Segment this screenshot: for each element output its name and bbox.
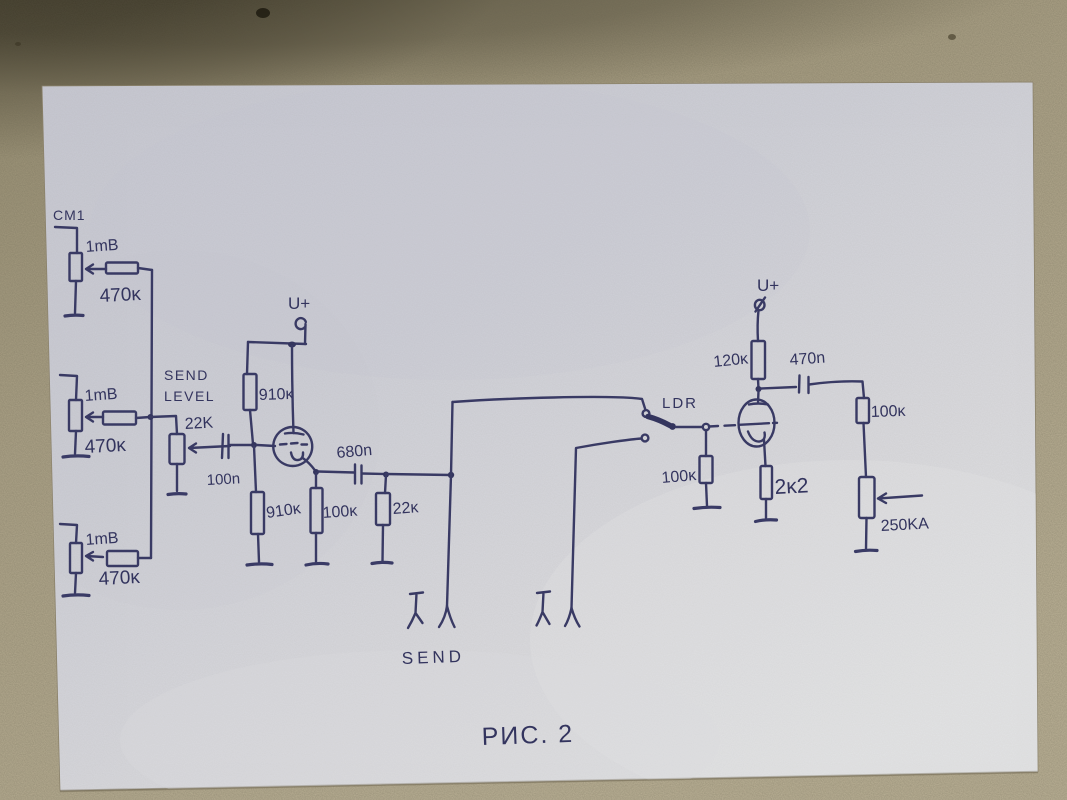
wire C3 to R11: [809, 381, 864, 398]
jack J1 sleeve: [408, 593, 423, 629]
junction U+ plate node: [288, 342, 296, 348]
V1 grid: [280, 443, 307, 445]
svg-text:1mB: 1mB: [85, 530, 119, 549]
terminal LDR top: [643, 410, 650, 417]
potentiometer P3 1mB: [70, 543, 103, 573]
wire grid node to R6: [254, 446, 256, 492]
V2 cathode: [748, 432, 766, 467]
svg-text:22K: 22K: [184, 415, 214, 433]
svg-text:100n: 100n: [206, 470, 240, 489]
wire P2 to ground: [75, 431, 76, 454]
wire grid node to V1 grid: [257, 445, 275, 446]
wire LDR to V2 grid node: [676, 426, 702, 428]
resistor R6 910k lower: [251, 492, 264, 534]
tube V1 triode envelope: [273, 427, 312, 466]
svg-text:100ĸ: 100ĸ: [871, 403, 907, 421]
wire plate node to C3: [761, 387, 796, 389]
junction cathode node V1: [313, 469, 319, 475]
resistor R8 22k: [376, 475, 390, 561]
ground P5: [856, 550, 878, 551]
svg-text:1mB: 1mB: [84, 386, 118, 405]
terminal U+ supply 2: [755, 298, 765, 312]
svg-text:1mB: 1mB: [85, 237, 119, 256]
wire CH1 input: [55, 227, 77, 253]
ground P3: [63, 595, 89, 596]
svg-text:U+: U+: [288, 294, 310, 313]
capacitor C1 100n: [222, 434, 229, 458]
jack J2 tip fork: [565, 608, 580, 627]
svg-text:470ĸ: 470ĸ: [99, 284, 142, 307]
V1 plate: [285, 433, 304, 435]
wire send node up: [451, 402, 453, 475]
terminal LDR bottom: [642, 435, 649, 442]
V2 plate: [749, 391, 768, 405]
label SEND LEVEL: [164, 367, 215, 404]
junction grid node V1: [251, 442, 257, 448]
resistor R9 100k grid: [700, 430, 713, 506]
ground P4: [168, 492, 186, 496]
wire U+ to R10: [756, 310, 759, 341]
junction send node: [448, 472, 454, 478]
terminal U+ supply 1: [296, 318, 306, 344]
junction LDR output: [669, 423, 676, 430]
ground P2: [63, 456, 89, 457]
svg-text:U+: U+: [757, 276, 779, 295]
wire R6 to ground: [258, 534, 259, 562]
wire ch3 input: [60, 524, 77, 543]
wire J2 tip to LDR return: [572, 439, 642, 609]
svg-text:SEND: SEND: [401, 647, 465, 668]
junction plate node V2: [756, 386, 762, 392]
svg-text:470ĸ: 470ĸ: [84, 435, 127, 458]
resistor R11 100k: [857, 398, 870, 423]
svg-text:22ĸ: 22ĸ: [392, 499, 420, 518]
svg-text:250KA: 250KA: [880, 515, 929, 535]
ground P1: [65, 314, 83, 318]
wire send bus to LDR: [453, 397, 646, 410]
wire R5 to grid node: [250, 410, 253, 444]
wire C1 to grid node: [229, 444, 254, 446]
svg-text:470n: 470n: [789, 350, 826, 369]
svg-text:100ĸ: 100ĸ: [661, 467, 698, 487]
resistor R1 470k: [106, 263, 152, 274]
svg-text:2ĸ2: 2ĸ2: [774, 474, 809, 499]
resistor R2 470k: [103, 412, 150, 425]
wire plate V1: [292, 346, 294, 433]
wire ch2 input: [60, 375, 77, 400]
wire P3 to ground: [75, 573, 76, 593]
resistor R10 120k: [752, 341, 766, 379]
node V2 grid terminal: [703, 424, 709, 430]
V1 cathode: [291, 453, 316, 472]
potentiometer P4 22K send level: [170, 434, 231, 464]
wire R8 node to send node: [386, 474, 451, 475]
svg-text:100ĸ: 100ĸ: [322, 503, 359, 522]
ground R8: [372, 562, 392, 563]
svg-text:910ĸ: 910ĸ: [259, 386, 295, 404]
jack J1 tip fork: [439, 606, 455, 627]
wire R12 to ground: [765, 499, 767, 518]
ground R7: [306, 563, 328, 565]
resistor R5 910k upper: [244, 374, 257, 410]
LDR body: [648, 417, 670, 426]
jack J2 sleeve: [537, 592, 551, 626]
resistor R12 2K2: [761, 466, 773, 499]
capacitor C3 470n: [799, 376, 809, 394]
ground R9: [694, 507, 720, 508]
svg-text:CM1: CM1: [53, 207, 86, 223]
wire P5 to ground: [865, 518, 868, 549]
wire R11 to P5: [864, 423, 867, 477]
ground R6: [247, 564, 272, 565]
wire U+ rail: [248, 342, 306, 344]
junction bus R2 send: [148, 414, 154, 420]
capacitor C2 680n: [355, 465, 362, 484]
wire mix bus: [151, 270, 152, 558]
wire P1 to ground: [75, 281, 76, 313]
svg-text:РИС. 2: РИС. 2: [481, 720, 574, 751]
potentiometer P5 250KA: [859, 477, 922, 518]
V2 grid: [709, 423, 777, 427]
svg-text:680n: 680n: [336, 442, 373, 462]
potentiometer P1 1mB: [70, 253, 107, 281]
svg-text:470ĸ: 470ĸ: [98, 567, 141, 590]
resistor R3 470k: [107, 551, 151, 566]
ground R12: [756, 520, 777, 522]
wire rail corner to R5: [247, 342, 248, 374]
potentiometer P2 1mB: [69, 400, 103, 431]
junction R8 node: [383, 472, 389, 478]
svg-text:LDR: LDR: [662, 395, 698, 412]
resistor R7 100k cathode: [311, 473, 323, 562]
wire C2 to R8 node: [362, 472, 386, 475]
wire junction to P4: [150, 416, 177, 434]
wire cathode node to C2: [318, 472, 354, 473]
tube V2 triode envelope: [739, 400, 775, 447]
wire P4 to ground: [176, 464, 178, 491]
svg-text:LEVEL: LEVEL: [164, 388, 215, 404]
wire R10 to plate node: [757, 379, 760, 389]
wire send node down to J1 tip: [447, 475, 451, 606]
svg-text:SEND: SEND: [164, 367, 209, 383]
